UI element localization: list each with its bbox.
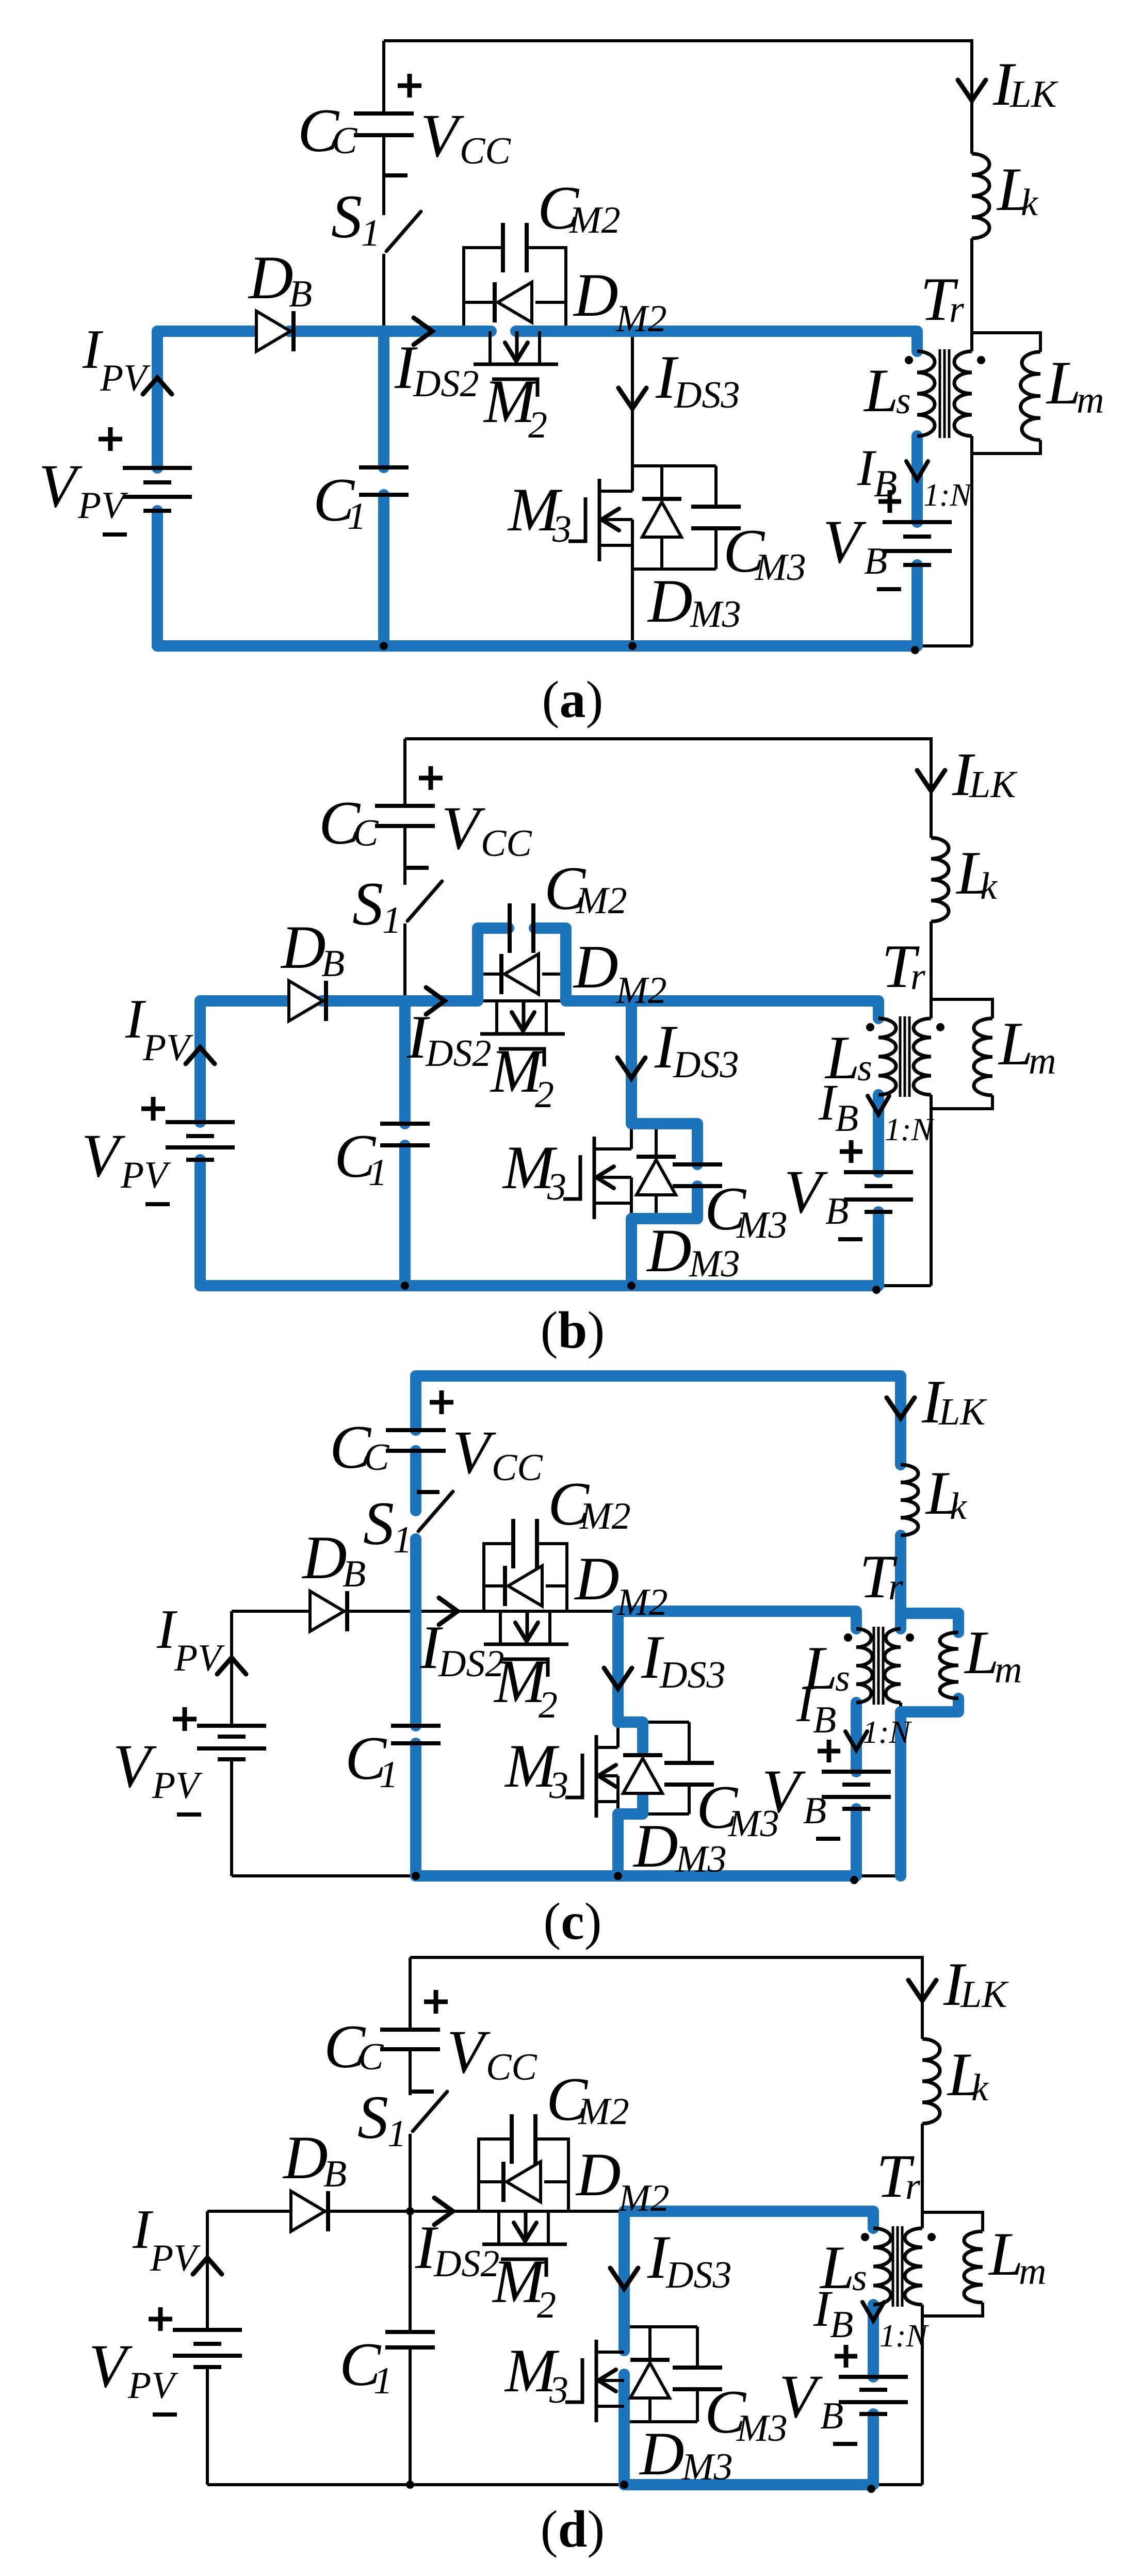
- svg-text:3: 3: [547, 1166, 566, 1208]
- svg-text:D: D: [574, 1544, 620, 1613]
- svg-text:PV: PV: [100, 357, 151, 399]
- svg-text:LK: LK: [960, 1973, 1009, 2016]
- wire M3 source to bottom: [616, 1776, 620, 1876]
- capacitor CC: [354, 111, 414, 116]
- svg-text:B: B: [289, 273, 312, 315]
- wire DM3 lower: [660, 538, 663, 569]
- wire S1 to bus: [409, 2134, 412, 2211]
- transistor M2 drain stub: [499, 1611, 502, 1644]
- transistor M3 drain stub: [596, 2351, 624, 2354]
- wire M3 snubber bottom: [618, 1812, 689, 1816]
- wire DM2 left: [464, 301, 493, 304]
- wire C1 upper: [382, 331, 385, 467]
- svg-text:k: k: [950, 1485, 967, 1528]
- svg-text:k: k: [1021, 182, 1038, 224]
- capacitor CM3: [673, 2366, 722, 2370]
- transistor M2 channel bar: [480, 1032, 565, 1036]
- arrow ILK: [958, 80, 986, 101]
- junction dot M3 bottom: [628, 642, 637, 650]
- wire top bus: [416, 1376, 901, 1465]
- junction dot C1 bottom: [406, 2481, 414, 2489]
- svg-text:C: C: [353, 812, 379, 854]
- svg-text:D: D: [573, 261, 618, 329]
- transistor M3 body stub: [598, 1774, 618, 1777]
- wire CM3 lower: [714, 528, 718, 569]
- svg-text:PV: PV: [142, 1027, 193, 1069]
- transistor M2 arrow: [505, 343, 528, 361]
- wire CM3 upper: [688, 1722, 691, 1763]
- wire blue PV left upper: [152, 331, 163, 468]
- svg-text:(d): (d): [541, 2500, 605, 2558]
- wire bus: [232, 1610, 856, 1613]
- wire blue bus right: [624, 2211, 873, 2228]
- transistor M2 source stub: [548, 1611, 551, 1644]
- wire bus: [207, 2210, 873, 2213]
- wire blue right lower: [895, 1712, 906, 1876]
- wire bottom bus: [207, 2483, 922, 2486]
- transistor M3 drain stub: [599, 490, 632, 493]
- svg-text:B: B: [321, 943, 345, 985]
- transformer Tr primary winding Ls: [917, 351, 935, 436]
- transistor M2 arrow stem: [515, 331, 519, 358]
- wire DM2 left: [484, 1584, 503, 1587]
- wire C1 lower: [409, 2347, 412, 2485]
- svg-text:1: 1: [387, 2113, 406, 2155]
- junction dot VB bottom: [850, 1876, 858, 1884]
- transformer Tr core: [892, 2226, 894, 2307]
- wire CM3 upper: [696, 2327, 699, 2368]
- wire CM2 box right: [528, 248, 566, 331]
- wire blue Lk to Tr: [895, 1535, 906, 1629]
- arrow IDS2: [434, 2198, 453, 2225]
- wire blue CM3 to bottom: [631, 1186, 697, 1286]
- wire C1 upper: [403, 1001, 406, 1124]
- label minus CC: [406, 866, 429, 870]
- transistor M3 channel bar: [595, 2340, 598, 2422]
- wire PV left lower: [199, 1160, 202, 1286]
- wire bottom bus: [157, 644, 972, 647]
- svg-text:C: C: [358, 2036, 384, 2078]
- svg-text:k: k: [971, 2067, 989, 2109]
- wire Ls to VB: [877, 1095, 880, 1172]
- svg-text:DS2: DS2: [433, 2243, 499, 2285]
- wire DM2 right: [546, 1584, 567, 1587]
- label plus VPV: [141, 1107, 165, 1111]
- wire S1 to bus: [382, 254, 385, 331]
- transistor M3 gate: [568, 497, 585, 541]
- svg-text:2: 2: [539, 1684, 558, 1726]
- transistor M2 arrow stem: [522, 1001, 526, 1028]
- wire DM3 lower: [648, 2399, 651, 2422]
- transistor M3 channel bar: [598, 479, 601, 561]
- svg-text:B: B: [825, 1190, 849, 1233]
- wire blue bus mid: [618, 1611, 856, 1629]
- wire DM3 upper: [655, 1124, 658, 1158]
- svg-text:s: s: [835, 1657, 850, 1699]
- wire VB to bottom: [855, 1809, 858, 1876]
- svg-text:M2: M2: [578, 2091, 629, 2133]
- svg-text:L: L: [964, 1618, 999, 1687]
- arrow IDS3: [610, 2268, 638, 2289]
- capacitor CM3: [673, 1162, 722, 1167]
- wire blue IDS3 to DM3: [618, 1611, 643, 1751]
- wire blue C1 lower: [378, 495, 389, 646]
- battery VB: [883, 520, 952, 524]
- wire CM2 box left: [478, 928, 509, 1001]
- transformer Tr dot primary: [844, 1633, 852, 1642]
- svg-text:DS2: DS2: [425, 1032, 491, 1075]
- svg-text:S: S: [331, 182, 362, 251]
- transistor M2 channel bar: [482, 2243, 567, 2246]
- wire DM3 upper: [660, 466, 663, 500]
- junction dot M3 bottom: [620, 2481, 628, 2489]
- svg-text:B: B: [830, 2304, 853, 2346]
- transistor M2 source stub: [545, 1001, 548, 1034]
- svg-text:1: 1: [373, 2360, 393, 2402]
- svg-text:M2: M2: [615, 298, 667, 340]
- wire M3 snubber top: [631, 1122, 697, 1125]
- wire Lm top link: [901, 1613, 958, 1632]
- svg-text:DS3: DS3: [674, 374, 740, 416]
- diode DB: [310, 1591, 344, 1631]
- wire CM2 box left: [479, 2139, 511, 2211]
- transistor M3 gate: [565, 1754, 582, 1797]
- wire blue C1 lower: [399, 1145, 411, 1286]
- transistor M3 body stub: [596, 1176, 631, 1179]
- wire M3 snubber bottom: [632, 568, 716, 571]
- wire S1 to bus: [414, 1534, 417, 1611]
- wire CC top: [403, 739, 406, 806]
- wire bus: [157, 330, 490, 333]
- transistor M2 arrow stem: [524, 2211, 528, 2238]
- wire VB to bottom: [916, 565, 919, 646]
- wire CM3 upper: [696, 1124, 699, 1164]
- wire PV left upper: [206, 2211, 209, 2330]
- svg-text:PV: PV: [127, 2364, 178, 2407]
- wire VB to bottom: [877, 1212, 880, 1286]
- wire blue bus mid: [321, 995, 478, 1007]
- inductor Lk: [972, 154, 989, 238]
- wire Lk to transformer: [930, 921, 933, 1018]
- svg-text:CC: CC: [492, 1447, 543, 1489]
- transformer Tr secondary winding: [885, 1629, 901, 1703]
- svg-text:PV: PV: [150, 2237, 201, 2279]
- capacitor CM2: [511, 1519, 515, 1568]
- label plus CC: [430, 1400, 453, 1405]
- label plus CC: [398, 84, 421, 88]
- wire secondary lower: [921, 2305, 924, 2485]
- wire Ls to VB: [916, 436, 919, 522]
- wire DM3 upper: [648, 2327, 651, 2361]
- junction dot C1 bottom: [412, 1872, 420, 1880]
- svg-text:DS3: DS3: [659, 1654, 725, 1696]
- svg-text:LK: LK: [1009, 73, 1058, 116]
- wire blue bus right: [516, 331, 917, 351]
- wire IDS3: [630, 1001, 633, 1149]
- wire blue VB to bottom: [873, 1212, 884, 1286]
- wire top bus: [405, 739, 931, 838]
- svg-text:S: S: [352, 869, 383, 938]
- junction dot VB bottom: [867, 2485, 875, 2493]
- svg-text:B: B: [820, 2395, 843, 2437]
- transformer Tr primary winding Ls: [878, 1018, 896, 1095]
- diode DM2: [498, 282, 532, 322]
- diode DM3: [642, 502, 681, 537]
- wire bus corner to Ls: [916, 331, 919, 351]
- wire Lm bottom link: [901, 1698, 958, 1712]
- transformer Tr primary winding Ls: [856, 1629, 872, 1703]
- svg-text:PV: PV: [174, 1637, 225, 1679]
- transistor M2 channel bar: [474, 363, 558, 366]
- svg-text:r: r: [910, 955, 926, 998]
- wire IDS3: [623, 2211, 626, 2352]
- wire M3 source to bottom: [623, 2380, 626, 2485]
- capacitor C1: [391, 1724, 441, 1728]
- transistor M2 drain stub: [495, 1001, 498, 1034]
- wire CM3 lower: [688, 1785, 691, 1814]
- arrow IB: [862, 2302, 884, 2321]
- battery VPV: [197, 1724, 266, 1728]
- svg-text:V: V: [442, 793, 485, 862]
- inductor Lm: [1021, 352, 1040, 440]
- svg-text:V: V: [420, 101, 464, 170]
- wire blue VB to bottom: [868, 2414, 879, 2485]
- transformer Tr secondary winding: [914, 1018, 931, 1095]
- wire blue IDS3 to CM3: [631, 1001, 697, 1164]
- wire bus: [200, 999, 878, 1002]
- diode DM3: [637, 1160, 676, 1195]
- junction dot M3 bottom: [614, 1872, 622, 1880]
- svg-text:r: r: [888, 1566, 904, 1608]
- wire PV left lower: [206, 2367, 209, 2485]
- wire C1 lower: [382, 495, 385, 646]
- transistor M3 arrow: [598, 2370, 616, 2391]
- svg-text:2: 2: [528, 404, 547, 446]
- wire CM2 box left: [464, 248, 502, 331]
- svg-text:2: 2: [535, 1074, 554, 1116]
- wire blue bottom bus: [416, 1870, 856, 1882]
- wire C1 upper: [409, 2211, 412, 2332]
- wire M3 snubber top: [618, 1721, 689, 1724]
- svg-text:L: L: [988, 2219, 1023, 2288]
- svg-text:B: B: [835, 1097, 858, 1140]
- wire bus corner to Ls: [872, 2211, 875, 2228]
- wire blue DM3 to bottom: [618, 1794, 643, 1876]
- wire DM2 right: [535, 301, 566, 304]
- arrow IDS2: [426, 987, 445, 1014]
- wire blue bus mid: [289, 326, 491, 337]
- svg-text:PV: PV: [152, 1764, 203, 1807]
- wire blue Ls to VB: [873, 1095, 884, 1172]
- transistor M3 drain stub: [596, 1746, 618, 1749]
- wire DM2 left: [478, 973, 499, 976]
- inductor Lm: [964, 2231, 983, 2303]
- svg-text:M3: M3: [736, 2407, 788, 2450]
- wire M3 source to bottom: [630, 1177, 633, 1286]
- svg-text:CC: CC: [486, 2046, 537, 2088]
- wire CM2 box right: [534, 928, 566, 1001]
- capacitor C1: [359, 465, 409, 469]
- svg-text:LK: LK: [938, 1391, 987, 1433]
- wire C1 lower: [403, 1145, 406, 1286]
- svg-text:LK: LK: [969, 764, 1018, 806]
- wire blue bottom bus: [200, 1280, 878, 1291]
- label plus VPV: [173, 1717, 197, 1722]
- transformer Tr dot secondary: [936, 1023, 944, 1031]
- transformer Tr core: [939, 349, 941, 438]
- arrow IDS3: [618, 388, 646, 409]
- transformer Tr dot primary: [905, 356, 913, 364]
- svg-text:r: r: [905, 2165, 921, 2208]
- svg-text:D: D: [639, 2419, 685, 2488]
- capacitor CC: [386, 1428, 446, 1432]
- wire PV left upper: [156, 331, 159, 468]
- transistor M2 drain stub: [497, 2211, 500, 2244]
- transformer Tr secondary winding: [954, 351, 972, 436]
- wire IDS3: [616, 1611, 620, 1747]
- label minus VPV: [153, 2412, 177, 2417]
- wire blue CC upper: [410, 1376, 421, 1430]
- inductor Lk: [931, 838, 949, 921]
- svg-text:(b): (b): [541, 1301, 605, 1359]
- transistor M3 source stub: [594, 1202, 631, 1205]
- wire CC top: [409, 1957, 412, 2030]
- svg-text:D: D: [301, 1523, 347, 1592]
- wire C1 lower: [414, 1743, 417, 1876]
- wire blue PV left lower: [152, 511, 163, 646]
- wire M3 source to bottom: [631, 520, 634, 646]
- svg-text:1:N: 1:N: [885, 1112, 935, 1147]
- label plus VB: [878, 499, 901, 504]
- battery VB: [822, 1770, 891, 1774]
- capacitor CM2: [501, 223, 505, 272]
- wire CM2 box right: [536, 2139, 568, 2211]
- wire Lm top link: [931, 999, 992, 1018]
- capacitor CM3: [664, 1761, 714, 1765]
- wire DM2 right: [544, 2180, 568, 2183]
- wire blue PV left upper: [194, 1001, 206, 1122]
- svg-text:m: m: [1019, 2250, 1046, 2293]
- transistor M2 gate: [499, 1049, 544, 1066]
- svg-text:s: s: [896, 380, 911, 422]
- svg-text:S: S: [357, 2083, 388, 2151]
- battery VPV: [166, 1120, 235, 1124]
- svg-text:M2: M2: [569, 199, 621, 241]
- svg-text:k: k: [980, 865, 998, 908]
- capacitor C1: [385, 2330, 435, 2334]
- wire CM2 box left: [484, 1544, 512, 1611]
- wire blue snubber down right: [534, 928, 566, 1001]
- svg-text:D: D: [573, 932, 618, 1001]
- wire CC to S1: [382, 135, 385, 215]
- transistor M3 arrow: [601, 509, 619, 530]
- svg-text:V: V: [452, 1418, 496, 1486]
- svg-text:V: V: [39, 451, 83, 520]
- wire blue C1 upper: [399, 1001, 411, 1124]
- diode DM2: [504, 954, 539, 994]
- wire CM3 upper: [714, 466, 718, 507]
- svg-text:1: 1: [361, 212, 380, 254]
- svg-text:D: D: [632, 1811, 678, 1880]
- svg-text:C: C: [364, 1436, 390, 1479]
- svg-text:L: L: [1046, 348, 1081, 417]
- svg-text:M2: M2: [576, 880, 627, 922]
- wire blue VB to bottom: [851, 1809, 862, 1876]
- diode DM2: [507, 2162, 541, 2202]
- wire Lm top link: [922, 2212, 983, 2231]
- wire CM2 box right: [538, 1544, 567, 1611]
- svg-text:(a): (a): [542, 671, 604, 729]
- svg-text:M2: M2: [579, 1495, 631, 1537]
- inductor Lm: [974, 1018, 992, 1095]
- wire blue bottom bus: [157, 640, 917, 652]
- battery VPV: [123, 466, 192, 470]
- inductor Lm: [940, 1632, 958, 1698]
- svg-text:2: 2: [537, 2284, 556, 2326]
- label minus VB: [838, 1237, 862, 1241]
- arrow IPV: [217, 1658, 246, 1674]
- svg-text:DS2: DS2: [413, 363, 479, 405]
- transformer Tr dot primary: [866, 1023, 874, 1031]
- transistor M3 arrow: [598, 1765, 616, 1787]
- wire PV left lower: [156, 511, 159, 646]
- svg-text:m: m: [1077, 379, 1104, 422]
- transistor M2 arrow: [514, 2223, 536, 2241]
- transistor M2 arrow stem: [526, 1611, 529, 1638]
- svg-text:PV: PV: [120, 1154, 171, 1196]
- svg-text:1:N: 1:N: [862, 1715, 913, 1750]
- capacitor C1: [380, 1122, 430, 1126]
- transformer Tr primary winding Ls: [873, 2228, 891, 2305]
- transistor M2 arrow: [515, 1623, 538, 1641]
- svg-text:V: V: [823, 507, 867, 576]
- wire Lk to transformer: [921, 2124, 924, 2228]
- arrow IB: [845, 1731, 867, 1750]
- svg-text:DS3: DS3: [665, 2254, 731, 2296]
- label minus VB: [816, 1837, 840, 1841]
- wire IDS3: [631, 331, 634, 491]
- wire DM2 right: [542, 973, 566, 976]
- svg-text:m: m: [995, 1649, 1022, 1691]
- switch S1: [418, 1492, 453, 1531]
- svg-text:1: 1: [379, 1754, 398, 1796]
- diode DM2: [508, 1566, 542, 1606]
- wire blue S1 to bus: [410, 1539, 421, 1726]
- label plus VB: [835, 2354, 857, 2359]
- transistor M3 channel bar: [593, 1137, 596, 1219]
- wire CC to S1: [409, 2049, 412, 2095]
- label minus VPV: [145, 1202, 170, 1206]
- transistor M3 source stub: [596, 2405, 624, 2408]
- label plus CC: [424, 2000, 448, 2004]
- wire blue top bus: [416, 1376, 901, 1465]
- transistor M3 arrow: [596, 1167, 614, 1188]
- switch S1: [408, 881, 442, 921]
- wire Lm top link: [972, 333, 1040, 352]
- svg-text:DS3: DS3: [673, 1044, 739, 1086]
- svg-text:r: r: [949, 288, 965, 331]
- svg-text:1:N: 1:N: [879, 2319, 930, 2354]
- svg-text:L: L: [998, 1009, 1033, 1078]
- svg-text:D: D: [575, 2140, 621, 2209]
- wire Ls to VB: [855, 1703, 858, 1772]
- label plus CC: [419, 776, 443, 781]
- junction dot M3 bottom: [627, 1282, 636, 1290]
- wire secondary lower: [970, 436, 973, 646]
- svg-text:M3: M3: [681, 2446, 733, 2488]
- wire Lm bottom link: [931, 1095, 992, 1109]
- label minus CC: [385, 173, 408, 177]
